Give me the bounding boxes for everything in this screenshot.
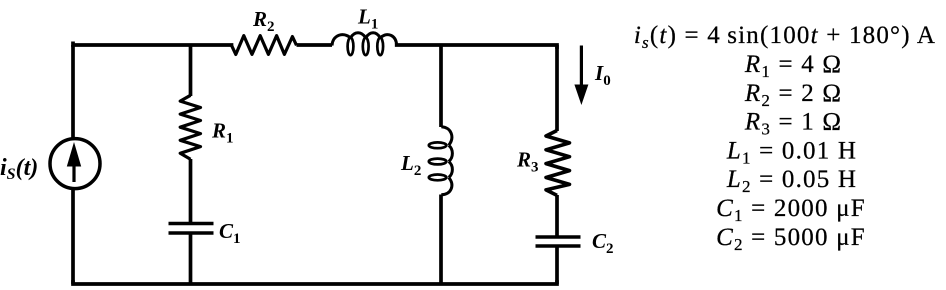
svg-text:R3: R3 (516, 148, 539, 176)
inductor L2 hump 2 (449, 145, 453, 161)
inductor L2 loop 3 (429, 175, 447, 181)
wire R3 branch below C2 (555, 248, 559, 285)
wire left branch below source (71, 190, 75, 284)
capacitor C1 top plate (169, 222, 214, 226)
svg-text:R2: R2 (252, 7, 275, 35)
inductor L1 loop 2 (363, 38, 369, 56)
inductor L1 hump 4 (380, 35, 397, 46)
wire R3 branch between R3 and C2 (555, 195, 559, 236)
resistor R3 zigzag (546, 131, 570, 196)
svg-text:is(t) = 4 sin(100t + 180°) A: is(t) = 4 sin(100t + 180°) A (634, 22, 936, 52)
resistor R1 zigzag (180, 95, 200, 159)
wire R1 branch below C1 (189, 235, 193, 285)
inductor L2 hump 1 (441, 127, 452, 146)
svg-text:R1 = 4 Ω: R1 = 4 Ω (744, 51, 842, 81)
wire left branch above source (71, 45, 75, 138)
wire L2 branch top (439, 45, 443, 127)
capacitor C2 top plate (536, 235, 581, 239)
wire R1 branch between R1 and C1 (189, 159, 193, 222)
arrow I0 shaft (580, 46, 583, 89)
inductor L2 loop 1 (429, 142, 447, 148)
arrow I0 head (574, 85, 588, 106)
svg-text:I0: I0 (594, 61, 611, 89)
wire bottom (73, 282, 557, 284)
inductor L2 hump 4 (441, 177, 452, 194)
inductor L1 hump 2 (351, 33, 366, 38)
wire top segment left (top-left corner to R2) (73, 43, 232, 45)
inductor L2 loop 2 (429, 159, 447, 165)
wire top segment L1 to top-right corner (397, 45, 557, 47)
svg-text:R3 = 1 Ω: R3 = 1 Ω (744, 109, 842, 139)
svg-text:R2 = 2 Ω: R2 = 2 Ω (744, 80, 842, 110)
svg-text:L2: L2 (400, 151, 421, 179)
resistor R2 zigzag (232, 36, 297, 55)
wire R1 branch top (189, 45, 193, 96)
current source arrowhead (67, 142, 81, 167)
svg-text:C1 = 2000 μF: C1 = 2000 μF (716, 195, 866, 225)
svg-text:C2 = 5000 μF: C2 = 5000 μF (716, 224, 866, 254)
inductor L1 loop 1 (348, 38, 354, 56)
capacitor C1 bottom plate (169, 231, 214, 235)
inductor L1 hump 1 (332, 35, 351, 46)
svg-text:L2 = 0.05 H: L2 = 0.05 H (726, 166, 857, 196)
inductor L1 loop 3 (377, 38, 383, 56)
svg-text:L1: L1 (357, 5, 378, 33)
current source arrow shaft (72, 162, 75, 182)
svg-text:iS(t): iS(t) (0, 155, 38, 183)
svg-text:C1: C1 (219, 219, 241, 247)
wire R3 branch top (555, 45, 559, 131)
inductor L2 hump 3 (449, 162, 453, 178)
capacitor C2 bottom plate (536, 244, 581, 248)
current source is(t) circle (50, 139, 100, 189)
svg-text:R1: R1 (211, 119, 234, 147)
inductor L1 hump 3 (366, 33, 381, 38)
svg-text:L1 = 0.01 H: L1 = 0.01 H (726, 137, 857, 167)
svg-text:C2: C2 (592, 229, 614, 257)
wire L2 branch bottom (439, 195, 443, 285)
wire top segment between R2 and L1 (297, 43, 333, 47)
